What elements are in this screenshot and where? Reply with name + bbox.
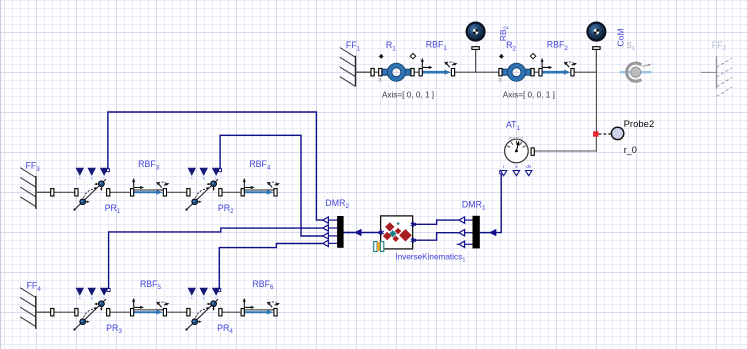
body CoM	[587, 23, 605, 73]
input connectors PR4	[188, 288, 220, 300]
joint PR3	[73, 299, 109, 331]
fixed translation RBF1	[419, 58, 457, 76]
node IK input star	[379, 230, 384, 236]
output connectors AT1	[500, 164, 532, 176]
demultiplexer DMR2	[323, 216, 362, 248]
wire FF4 to PR3	[36, 311, 75, 313]
wire RBF1 to R2 via RB2 node	[455, 71, 499, 73]
svg-text:Probe2: Probe2	[624, 119, 655, 130]
node AT1 frame connector	[531, 148, 534, 155]
revolute joint R1	[378, 53, 416, 83]
fixed frame FF1	[340, 48, 371, 87]
wire RBF3 to PR2	[167, 191, 187, 193]
block InverseKinematics1	[374, 216, 413, 252]
fixed translation RBF5	[131, 298, 170, 316]
svg-text:a: a	[498, 77, 502, 84]
probe Probe2	[611, 127, 623, 139]
node frame connector FF1	[371, 69, 374, 76]
fixed translation RBF6	[241, 298, 280, 316]
joint PR1	[73, 179, 109, 211]
body RB2	[467, 23, 485, 73]
wire R1 to RBF1	[414, 71, 419, 73]
svg-text:CoM: CoM	[616, 29, 626, 47]
node Probe2 tap	[593, 131, 598, 136]
svg-text:a: a	[378, 77, 382, 84]
fixed translation RBF2	[539, 58, 577, 76]
wire PR2 to RBF4	[222, 191, 241, 193]
node frame connector FF4	[51, 309, 54, 316]
fixed translation RBF3	[131, 178, 170, 196]
wire DMR2 out3 to PR2 input	[220, 135, 323, 236]
svg-text:Axis=[ 0, 0, 1 ]: Axis=[ 0, 0, 1 ]	[503, 91, 555, 100]
svg-text:r_0: r_0	[624, 145, 637, 155]
svg-text:Axis=[ 0, 0, 1 ]: Axis=[ 0, 0, 1 ]	[382, 91, 434, 100]
wire R2 to RBF2	[534, 71, 539, 73]
fixed frame FF3	[20, 168, 51, 209]
joint PR2	[185, 179, 222, 211]
wire AT1 r output to DMR1 input	[480, 173, 501, 233]
node IK output star top	[411, 221, 416, 227]
sensor S1 (disabled)	[620, 63, 652, 81]
wire DMR2 out4 to PR4 input	[219, 244, 323, 291]
wire RBF5 to PR4	[167, 311, 187, 313]
wire frame FF1 to R1	[356, 71, 379, 73]
wire DMR2 out2 to PR3 input	[109, 228, 323, 290]
wire PR4 to RBF6	[222, 311, 241, 313]
fixed frame FF4	[20, 288, 51, 329]
node frame connector FF3	[51, 189, 54, 196]
wire CoM down to AT1	[534, 49, 596, 151]
svg-text:Inertial: Inertial	[509, 136, 523, 142]
input connectors PR1	[76, 168, 108, 180]
input connectors PR2	[188, 168, 220, 180]
revolute joint R2	[498, 53, 536, 83]
wire PR3 to RBF5	[110, 311, 131, 313]
wire Probe2 dashed	[599, 133, 612, 135]
fixed frame FF2 (disabled)	[701, 56, 732, 96]
fixed translation RBF4	[241, 178, 280, 196]
wire PR1 to RBF3	[110, 191, 131, 193]
joint PR4	[185, 299, 222, 331]
wire DMR1 out1 to InverseKinematics1	[413, 220, 459, 224]
wire DMR1 out2 to InverseKinematics1	[413, 233, 459, 241]
sensor AT1	[505, 139, 529, 163]
demultiplexer DMR1	[457, 216, 497, 249]
wire DMR2 out1 to PR1 input	[108, 112, 323, 220]
wire FF3 to PR1	[36, 191, 75, 193]
svg-text:dv: dv	[526, 164, 532, 169]
wire InverseKinematics1 to DMR2 input	[344, 232, 381, 234]
input connectors PR3	[76, 288, 108, 300]
wire RBF2 to CoM node	[574, 71, 596, 73]
node IK output star bottom	[411, 237, 416, 243]
